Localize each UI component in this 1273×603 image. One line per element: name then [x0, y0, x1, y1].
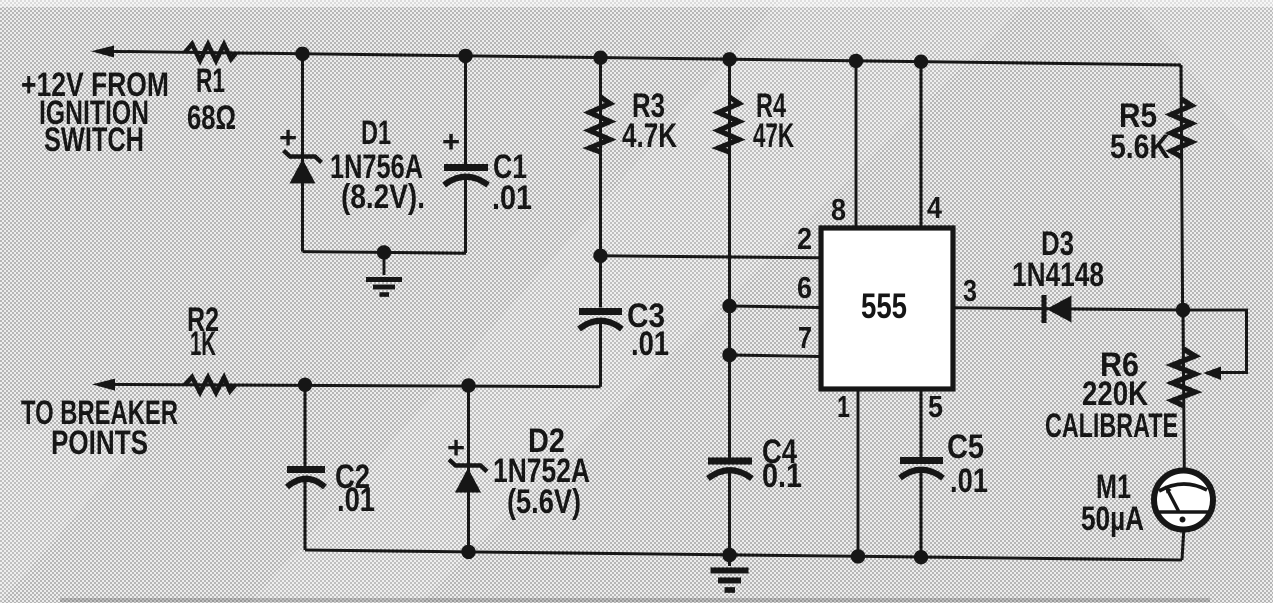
node junction R3 column / pin2 wire — [593, 249, 607, 263]
zener diode D1 — [284, 151, 322, 184]
wire pin6 — [730, 306, 820, 308]
resistor R2 — [185, 377, 235, 393]
zener diode D2 — [449, 460, 487, 493]
resistor R3 — [590, 97, 611, 152]
svg-text:.01: .01 — [337, 481, 375, 519]
wire D1/C1 bottom link — [303, 252, 467, 254]
svg-text:5: 5 — [928, 389, 943, 424]
label C5 value .01 — [950, 462, 988, 500]
label D1 — [361, 114, 391, 152]
svg-text:+: + — [447, 430, 465, 465]
wire pin8 column — [855, 61, 858, 226]
svg-text:2: 2 — [797, 221, 812, 256]
label 4.7K — [622, 117, 677, 155]
label 1N4148 — [1012, 256, 1104, 294]
svg-text:4.7K: 4.7K — [622, 117, 677, 155]
wire C1 column — [464, 56, 467, 253]
svg-text:555: 555 — [861, 287, 907, 326]
wire pin5 / C5 column — [920, 389, 923, 557]
node junction breaker rail / D2 — [461, 378, 475, 392]
potentiometer R6 — [1173, 349, 1195, 406]
label R2 — [187, 301, 219, 339]
node junction pin3 / R5 / R6 — [1176, 303, 1190, 317]
label 220K — [1082, 375, 1148, 413]
label C1 value .01 — [492, 179, 532, 217]
svg-text:.01: .01 — [492, 179, 532, 217]
node junction link / ground stub — [377, 245, 391, 259]
label 47K — [753, 117, 794, 155]
svg-text:8: 8 — [831, 192, 846, 227]
pin number 8 — [831, 192, 846, 227]
label SWITCH — [44, 121, 144, 159]
label C4 — [762, 433, 797, 471]
svg-text:.01: .01 — [631, 325, 669, 363]
IC 555 timer U1 — [821, 228, 953, 389]
label C3 value .01 — [631, 325, 669, 363]
label R6 — [1100, 346, 1139, 384]
plus sign at C1 — [442, 124, 460, 159]
svg-text:50µA: 50µA — [1081, 500, 1144, 538]
label C2 — [335, 458, 370, 496]
label C2 value .01 — [337, 481, 375, 519]
resistor R4 — [719, 97, 740, 152]
node junction bottom rail / C5 — [914, 550, 928, 564]
label +12V FROM — [21, 66, 169, 104]
plus sign at D1 — [279, 120, 297, 155]
resistor R5 — [1171, 99, 1192, 157]
wiper arrow of R6 — [1203, 367, 1221, 381]
wire D1 column — [301, 54, 304, 252]
label C4 value 0.1 — [762, 457, 802, 495]
capacitor C3 — [579, 312, 622, 330]
svg-text:1K: 1K — [190, 325, 216, 363]
resistor R1 — [185, 44, 236, 61]
pin number 1 — [837, 389, 850, 424]
wire pin3 output — [953, 308, 1183, 310]
svg-text:6: 6 — [797, 270, 812, 305]
wire C2 column — [304, 385, 307, 550]
label R3 — [632, 87, 665, 125]
label IGNITION — [39, 94, 149, 132]
svg-text:68Ω: 68Ω — [187, 99, 236, 137]
label R1 — [196, 62, 225, 100]
label (5.6V) — [507, 483, 581, 521]
wire pin7 — [730, 355, 820, 357]
svg-text:7: 7 — [798, 320, 812, 355]
pin number 5 — [928, 389, 943, 424]
label 5.6K — [1110, 128, 1170, 166]
node junction bottom rail / pin1 — [851, 549, 865, 563]
svg-text:4: 4 — [927, 190, 943, 225]
wire meter to bottom rail — [1182, 530, 1184, 561]
capacitor C2 — [287, 470, 325, 488]
arrow to breaker points — [92, 379, 115, 391]
label R5 — [1119, 97, 1157, 135]
capacitor C4 — [708, 461, 752, 479]
node junction bottom rail / D2 — [461, 545, 475, 559]
wire R6 column — [1183, 310, 1184, 471]
wire R3/C3 column — [599, 58, 602, 387]
label D2 — [528, 422, 565, 460]
node junction top rail / pin8 — [849, 54, 863, 68]
diode D3 — [1044, 295, 1072, 323]
svg-text:CALIBRATE: CALIBRATE — [1045, 407, 1178, 445]
label C3 — [627, 297, 665, 335]
node junction breaker rail / C2 — [298, 378, 312, 392]
node junction top rail / R3 — [593, 51, 607, 65]
label C1 — [493, 148, 527, 186]
svg-text:+: + — [279, 120, 297, 155]
svg-text:SWITCH: SWITCH — [44, 121, 144, 159]
svg-text:R1: R1 — [196, 62, 225, 100]
label 1N752A — [493, 452, 590, 490]
label D3 — [1041, 225, 1074, 263]
node junction top rail / R4 — [722, 52, 736, 66]
node junction top rail / D1 — [295, 47, 309, 61]
ground under D1 — [366, 252, 402, 295]
pin number 7 — [798, 320, 812, 355]
pin number 3 — [963, 273, 977, 308]
wire bottom ground rail — [305, 550, 1182, 560]
pin number 4 — [927, 190, 943, 225]
node junction R4 column / pin6 wire — [722, 299, 736, 313]
wire D2 column — [467, 386, 470, 552]
svg-text:(8.2V).: (8.2V). — [341, 178, 425, 216]
wire pin4 column — [920, 62, 923, 226]
ground at bottom rail — [711, 555, 749, 590]
capacitor C1 — [444, 168, 488, 186]
wire R5 column — [1181, 65, 1183, 310]
wire pin2 — [601, 256, 820, 258]
node junction top rail / C1 — [458, 49, 472, 63]
label (8.2V). — [341, 178, 425, 216]
svg-text:3: 3 — [963, 273, 977, 308]
svg-text:+: + — [442, 124, 460, 159]
label M1 — [1096, 468, 1131, 506]
node junction bottom rail / C4 ground — [722, 548, 736, 562]
label 1N756A — [330, 148, 423, 186]
svg-text:POINTS: POINTS — [51, 424, 148, 462]
svg-text:5.6K: 5.6K — [1110, 128, 1170, 166]
svg-text:0.1: 0.1 — [762, 457, 802, 495]
wiper loop wire of R6 — [1183, 310, 1247, 373]
svg-text:C5: C5 — [947, 428, 984, 466]
svg-text:(5.6V): (5.6V) — [507, 483, 581, 521]
label TO BREAKER — [21, 394, 178, 432]
wire top supply rail — [99, 51, 1181, 65]
label 1K — [190, 325, 216, 363]
label 68 ohm — [187, 99, 236, 137]
label 50uA — [1081, 500, 1144, 538]
wire pin1 column — [857, 389, 860, 556]
capacitor C5 — [900, 461, 943, 479]
node junction top rail / pin4 — [914, 55, 928, 69]
node junction R4 column / pin7 wire — [722, 348, 736, 362]
svg-text:1: 1 — [837, 389, 850, 424]
pin number 2 — [797, 221, 812, 256]
meter M1 — [1154, 471, 1213, 530]
svg-text:.01: .01 — [950, 462, 988, 500]
wire R4/C4 column — [728, 59, 731, 555]
wire breaker points rail — [99, 384, 601, 386]
svg-text:1N4148: 1N4148 — [1012, 256, 1104, 294]
label CALIBRATE — [1045, 407, 1178, 445]
label C5 — [947, 428, 984, 466]
svg-text:47K: 47K — [753, 117, 794, 155]
label R4 — [756, 87, 786, 125]
arrow to +12V ignition switch — [91, 46, 114, 58]
svg-text:D1: D1 — [361, 114, 391, 152]
label POINTS — [51, 424, 148, 462]
pin number 6 — [797, 270, 812, 305]
plus sign at D2 — [447, 430, 465, 465]
